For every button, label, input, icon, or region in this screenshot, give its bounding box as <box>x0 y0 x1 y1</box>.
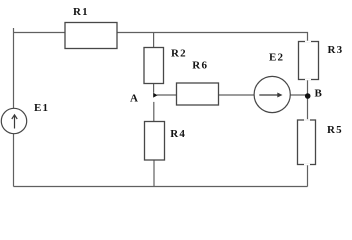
wire R2 bottom lead to node A <box>153 84 155 93</box>
wire node A to R4 <box>153 102 155 122</box>
wire R4 bottom lead <box>153 160 155 186</box>
wire R2 top lead <box>153 33 155 48</box>
resistor R4 <box>145 122 165 161</box>
wire top rail right segment to R3 <box>117 33 308 42</box>
wire top-left stub <box>13 28 15 33</box>
wire E2 to node B <box>290 94 307 96</box>
svg-text:R1: R1 <box>73 6 89 18</box>
resistor R1 <box>65 23 117 49</box>
svg-text:R2: R2 <box>171 47 187 59</box>
resistor R3 <box>299 42 319 80</box>
resistor R2 <box>144 48 164 84</box>
svg-text:R3: R3 <box>328 44 344 56</box>
wire left rail lower <box>13 134 15 187</box>
wire R6 right lead to E2 <box>219 94 255 96</box>
resistor R5 <box>298 120 316 165</box>
wire R5 bottom lead <box>307 165 309 187</box>
svg-text:E1: E1 <box>34 102 49 114</box>
svg-text:R6: R6 <box>192 60 208 72</box>
wire left rail upper <box>13 33 15 109</box>
wire R3 bottom lead to node B <box>307 80 309 97</box>
source E2 <box>254 76 290 112</box>
svg-text:E2: E2 <box>269 51 284 63</box>
wire R6 left lead <box>157 94 177 96</box>
svg-text:A: A <box>130 93 138 105</box>
source E1 <box>1 108 26 133</box>
resistor R6 <box>177 83 219 105</box>
wire top rail left segment <box>14 32 66 34</box>
node A arrowhead <box>153 93 157 98</box>
svg-text:R4: R4 <box>170 128 186 140</box>
wire bottom rail <box>14 186 308 188</box>
svg-text:B: B <box>315 88 323 100</box>
svg-text:R5: R5 <box>327 124 343 136</box>
wire node B to R5 top <box>307 96 309 120</box>
node B junction dot <box>305 93 311 99</box>
